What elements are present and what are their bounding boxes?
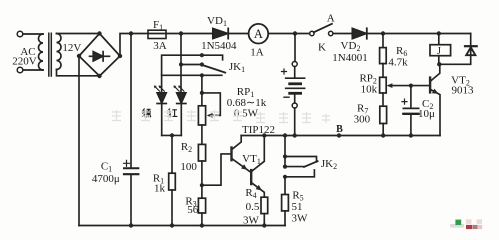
wire JK1 blade line bbox=[181, 64, 202, 66]
transistor VT1 first base bar bbox=[230, 146, 232, 161]
wire R6 to RP2 bbox=[382, 64, 384, 78]
node JK2 contact B bbox=[283, 175, 287, 179]
wire battery branch lower bbox=[294, 108, 296, 135]
resistor R3 body bbox=[198, 198, 205, 213]
transistor VT1 first collector bbox=[233, 136, 242, 149]
node JK1 contact A bbox=[200, 53, 204, 57]
wire JK2 contact B hook bbox=[285, 170, 314, 177]
capacitor C2 plate bottom bbox=[403, 113, 418, 115]
relay contact JK2 blade bbox=[304, 161, 318, 167]
svg-text:1A: 1A bbox=[250, 47, 264, 59]
wire R2 to R3 bbox=[201, 161, 203, 198]
svg-text:B: B bbox=[336, 124, 343, 135]
wire LED green cathode down bbox=[161, 104, 163, 136]
wire secondary top to bridge top vertex bbox=[57, 33, 100, 35]
svg-text:3W: 3W bbox=[292, 213, 309, 225]
resistor R6 body bbox=[380, 48, 387, 64]
node C1 bottom bbox=[129, 223, 133, 227]
battery terminal top circle bbox=[292, 62, 297, 67]
potentiometer RP1 body bbox=[198, 106, 205, 125]
wire JK2 branch upper bbox=[284, 136, 286, 167]
wire middle bus B bbox=[241, 135, 440, 137]
battery GB plate short 2 bbox=[290, 92, 301, 95]
svg-text:9013: 9013 bbox=[452, 85, 475, 97]
capacitor C2 plate top bbox=[403, 107, 418, 109]
wire terminal top to primary bbox=[23, 33, 43, 35]
label red char bbox=[168, 109, 178, 118]
wire RP2 wiper to VT2 base bbox=[389, 85, 429, 87]
wire left rail (bridge minus to bottom bus) bbox=[78, 56, 80, 226]
svg-text:100: 100 bbox=[180, 161, 197, 173]
transistor VT2 emitter bbox=[431, 90, 440, 136]
switch K blade bbox=[314, 24, 332, 33]
wire LED red cathode down bbox=[180, 104, 182, 136]
wire R4 to bottom bus bbox=[263, 214, 265, 226]
LED red triangle bbox=[177, 93, 186, 103]
wire JK2 to R5 bbox=[284, 177, 286, 195]
battery GB plate long 1 bbox=[286, 77, 305, 79]
svg-text:56: 56 bbox=[187, 204, 199, 216]
bridge inner diode lead right bbox=[103, 55, 109, 57]
wire JK2 blade line bbox=[285, 166, 304, 168]
bridge inner diode lead left bbox=[90, 55, 94, 57]
LED green cathode bar bbox=[157, 103, 166, 105]
node R7 bottom bbox=[381, 133, 385, 137]
svg-text:K: K bbox=[318, 42, 326, 54]
wire R3 to bottom bus bbox=[201, 213, 203, 226]
resistor R1 body bbox=[169, 173, 176, 190]
diode VD1 triangle bbox=[213, 28, 228, 38]
flyback diode cathode bar bbox=[465, 45, 477, 47]
switch K contact left circle bbox=[310, 31, 314, 35]
wire LED join to R1 bbox=[171, 135, 173, 173]
node VT1 collector at bus bbox=[262, 133, 266, 137]
wire R7 to middle bus bbox=[382, 124, 384, 136]
battery minus sign bbox=[284, 96, 289, 98]
wire RP1 to R2 bbox=[201, 125, 203, 144]
svg-text:300: 300 bbox=[354, 113, 371, 125]
node R4 bottom bbox=[262, 223, 266, 227]
wire bridge plus riser and top bus bbox=[120, 34, 249, 57]
relay contact JK1 blade bbox=[202, 65, 225, 73]
node JK1 blade tap bbox=[179, 62, 183, 66]
node JK1 branch top bbox=[179, 31, 183, 35]
VT1 second emitter arrowhead bbox=[256, 185, 262, 191]
bridge rectifier diamond bbox=[79, 34, 120, 77]
node JK2 branch at bus bbox=[283, 133, 287, 137]
transformer secondary winding bbox=[57, 34, 62, 70]
transistor VT2 collector bbox=[431, 64, 440, 80]
svg-text:1N5404: 1N5404 bbox=[201, 40, 237, 52]
C1 plus sign bbox=[124, 160, 130, 166]
AC source terminal bottom bbox=[17, 67, 23, 73]
node bridge right vertex bbox=[118, 54, 122, 58]
diode VD2 cathode bar bbox=[366, 28, 368, 38]
node LED join bbox=[170, 133, 174, 137]
transistor VT1 second emitter bbox=[252, 183, 264, 197]
node R1 bottom bbox=[170, 223, 174, 227]
LED red arrows bbox=[174, 86, 184, 91]
resistor R7 body bbox=[380, 106, 387, 123]
wire RP2 to R7 bbox=[382, 93, 384, 106]
wire C1 branch upper bbox=[130, 34, 132, 168]
node C2 top junction bbox=[409, 84, 413, 88]
svg-text:J: J bbox=[437, 46, 441, 57]
diode VD1 cathode bar bbox=[227, 28, 229, 38]
wire battery terminal to plates bbox=[294, 67, 296, 78]
resistor R5 body bbox=[282, 195, 289, 211]
wire RP1 wiper loop bbox=[202, 93, 220, 116]
VT2 emitter arrowhead bbox=[432, 89, 439, 94]
node C2 bottom bbox=[409, 133, 413, 137]
node battery at middle bus bbox=[293, 133, 297, 137]
watermark logo bottom right bbox=[450, 219, 482, 229]
transformer T primary winding bbox=[39, 34, 44, 70]
svg-text:4700μ: 4700μ bbox=[92, 173, 120, 185]
node battery top bbox=[293, 31, 297, 35]
node B on middle bus bbox=[337, 133, 341, 137]
transformer core bbox=[49, 33, 52, 76]
node C1 top bbox=[129, 31, 133, 35]
resistor R2 body bbox=[198, 144, 205, 161]
potentiometer RP2 body bbox=[380, 77, 387, 93]
label green char bbox=[142, 109, 151, 118]
node R2 R3 junction bbox=[200, 183, 204, 187]
node R6 top bbox=[381, 31, 385, 35]
resistor R4 body bbox=[261, 197, 268, 213]
bridge inner diode cathode bar bbox=[102, 52, 104, 61]
svg-text:10k: 10k bbox=[361, 84, 378, 96]
battery terminal bottom circle bbox=[292, 103, 297, 108]
transistor VT1 second base bar bbox=[250, 169, 252, 185]
switch K contact right circle bbox=[329, 31, 333, 35]
svg-text:3A: 3A bbox=[153, 40, 167, 52]
wire R6 top lead bbox=[382, 34, 384, 48]
flyback diode triangle bbox=[466, 47, 475, 55]
svg-text:TIP122: TIP122 bbox=[242, 124, 275, 136]
svg-text:12V: 12V bbox=[62, 42, 81, 54]
node R3 bottom bbox=[200, 223, 204, 227]
wire secondary bottom to bridge bottom vertex bbox=[57, 70, 100, 76]
battery GB plate short 1 bbox=[290, 82, 301, 85]
wire battery branch upper bbox=[294, 34, 296, 62]
wire top bus ammeter to switch bbox=[268, 33, 310, 35]
battery plus sign bbox=[282, 69, 287, 74]
ammeter A circle bbox=[249, 24, 269, 44]
wire JK1 branch from bus to red LED bbox=[180, 34, 182, 93]
wire relay top lead bbox=[438, 34, 440, 45]
node bridge left vertex bbox=[77, 54, 81, 58]
AC source terminal top bbox=[17, 31, 23, 37]
C2 plus sign bbox=[402, 99, 407, 104]
wire C2 lower lead bbox=[410, 115, 412, 136]
svg-text:3W: 3W bbox=[243, 214, 260, 226]
watermark band bbox=[112, 110, 330, 123]
wire top bus switch to right corner bbox=[333, 33, 471, 35]
capacitor C1 plate bottom bbox=[124, 173, 138, 175]
LED green arrows bbox=[155, 86, 165, 91]
bridge inner diode triangle bbox=[93, 52, 103, 61]
node relay top bbox=[437, 31, 441, 35]
wire C2 upper lead bbox=[410, 86, 412, 108]
wire battery plates to terminal bottom bbox=[294, 95, 296, 103]
wire relay bottom lead bbox=[438, 56, 440, 65]
wire JK2 contact A hook bbox=[285, 157, 317, 162]
svg-text:A: A bbox=[327, 13, 335, 25]
wire JK1 contact A hook bbox=[202, 55, 223, 60]
svg-text:4.7k: 4.7k bbox=[388, 57, 408, 69]
svg-text:10μ: 10μ bbox=[418, 108, 435, 120]
transistor VT1 second collector bbox=[252, 136, 264, 171]
wire terminal bottom to primary bbox=[23, 69, 43, 71]
node RP1 wiper tie bbox=[200, 91, 204, 95]
wire R5 to bottom bus end bbox=[284, 211, 286, 226]
relay J coil box bbox=[430, 45, 451, 56]
fuse F1 bbox=[148, 30, 166, 38]
node JK2 blade pivot bbox=[283, 165, 287, 169]
svg-text:1N4001: 1N4001 bbox=[332, 52, 367, 64]
wire flyback diode lead through bbox=[439, 34, 470, 65]
capacitor C1 plate top bbox=[124, 167, 138, 169]
wire JK1 contact B down to RP1 bbox=[201, 75, 203, 106]
wire VT1 base path bbox=[202, 154, 230, 185]
node bridge bottom vertex bbox=[97, 74, 101, 78]
wire JK1 contact A to green LED feed bbox=[162, 55, 202, 93]
svg-text:1k: 1k bbox=[154, 182, 166, 194]
svg-text:A: A bbox=[254, 27, 263, 41]
wire C1 branch lower bbox=[130, 175, 132, 225]
node bridge top vertex bbox=[97, 31, 101, 35]
wire R1 to bottom bus bbox=[171, 190, 173, 226]
node JK2 contact A bbox=[283, 154, 287, 158]
LED red cathode bar bbox=[177, 103, 186, 105]
wire LED cathode join bbox=[162, 134, 182, 136]
wire bottom bus bbox=[79, 225, 285, 227]
diode VD2 triangle bbox=[352, 28, 366, 38]
node JK1 blade pivot bbox=[200, 62, 204, 66]
svg-text:220V: 220V bbox=[12, 55, 37, 67]
VT1 first emitter arrowhead bbox=[241, 164, 247, 170]
LED green triangle bbox=[157, 93, 166, 103]
RP1 wiper arrowhead bbox=[207, 113, 213, 118]
wire JK1 contact B line bbox=[162, 74, 222, 76]
transistor VT2 base bar bbox=[429, 76, 431, 93]
node JK1 contact B bbox=[200, 73, 204, 77]
svg-text:0.5: 0.5 bbox=[246, 201, 260, 213]
RP2 wiper arrowhead bbox=[387, 83, 393, 88]
transistor VT1 first emitter bbox=[233, 159, 251, 172]
svg-text:51: 51 bbox=[292, 201, 303, 213]
battery GB plate long 2 bbox=[286, 87, 305, 89]
node relay bottom junction bbox=[437, 62, 441, 66]
